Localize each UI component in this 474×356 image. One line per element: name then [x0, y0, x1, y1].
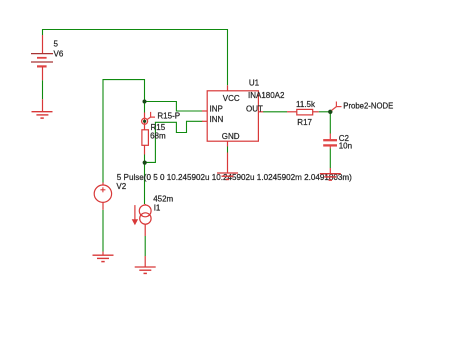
wire	[145, 121, 203, 162]
svg-text:R15-P: R15-P	[157, 112, 180, 121]
svg-text:U1: U1	[249, 78, 260, 87]
svg-text:452m: 452m	[153, 195, 173, 204]
ground	[93, 252, 114, 262]
wire	[145, 102, 203, 112]
wire	[43, 30, 228, 86]
wire	[102, 210, 104, 252]
svg-text:VCC: VCC	[223, 94, 240, 103]
ground	[32, 99, 53, 118]
ground bars over text (IC GND)	[217, 173, 238, 179]
ground	[329, 168, 331, 173]
svg-text:5: 5	[54, 40, 59, 49]
ground	[227, 153, 229, 173]
svg-text:INN: INN	[210, 115, 224, 124]
current source I1	[132, 204, 151, 236]
capacitor C2	[323, 134, 337, 149]
wire	[227, 147, 229, 153]
pin INP	[202, 110, 207, 112]
svg-text:11.5k: 11.5k	[296, 100, 316, 109]
svg-text:OUT: OUT	[246, 105, 263, 114]
wire	[144, 155, 146, 205]
wire	[144, 236, 146, 256]
svg-text:I1: I1	[154, 204, 161, 213]
svg-text:Probe2-NODE: Probe2-NODE	[343, 101, 393, 110]
resistor R15	[144, 113, 146, 130]
svg-text:5 Pulse(0 5 0 10.245902u 10.24: 5 Pulse(0 5 0 10.245902u 10.245902u 1.02…	[117, 173, 352, 182]
svg-text:R17: R17	[297, 118, 312, 127]
ground bars over text (C2 gnd)	[320, 174, 341, 180]
ground	[135, 256, 156, 273]
wire	[329, 149, 331, 169]
svg-text:INA180A2: INA180A2	[248, 91, 285, 100]
battery V6	[31, 35, 53, 80]
wire	[263, 111, 287, 113]
svg-text:INP: INP	[210, 104, 223, 113]
wire	[329, 112, 331, 134]
op-amp U1 INA180A2	[207, 91, 258, 141]
resistor R17	[287, 111, 297, 113]
node junction	[143, 161, 147, 165]
node junction Probe2	[328, 110, 332, 114]
svg-text:68m: 68m	[150, 132, 166, 141]
pin VCC	[227, 85, 229, 91]
pin INN	[202, 120, 207, 122]
probe R15-P	[142, 112, 155, 124]
svg-text:V6: V6	[54, 50, 64, 59]
wire	[42, 80, 44, 99]
wire	[103, 80, 145, 183]
node junction	[143, 100, 147, 104]
svg-text:10n: 10n	[339, 142, 352, 151]
voltage source V2	[94, 183, 111, 210]
probe Probe2-NODE	[332, 102, 342, 111]
pin GND	[227, 141, 229, 146]
pin OUT	[258, 111, 263, 113]
svg-text:V2: V2	[116, 182, 126, 191]
wire	[319, 111, 331, 113]
svg-text:GND: GND	[222, 132, 240, 141]
